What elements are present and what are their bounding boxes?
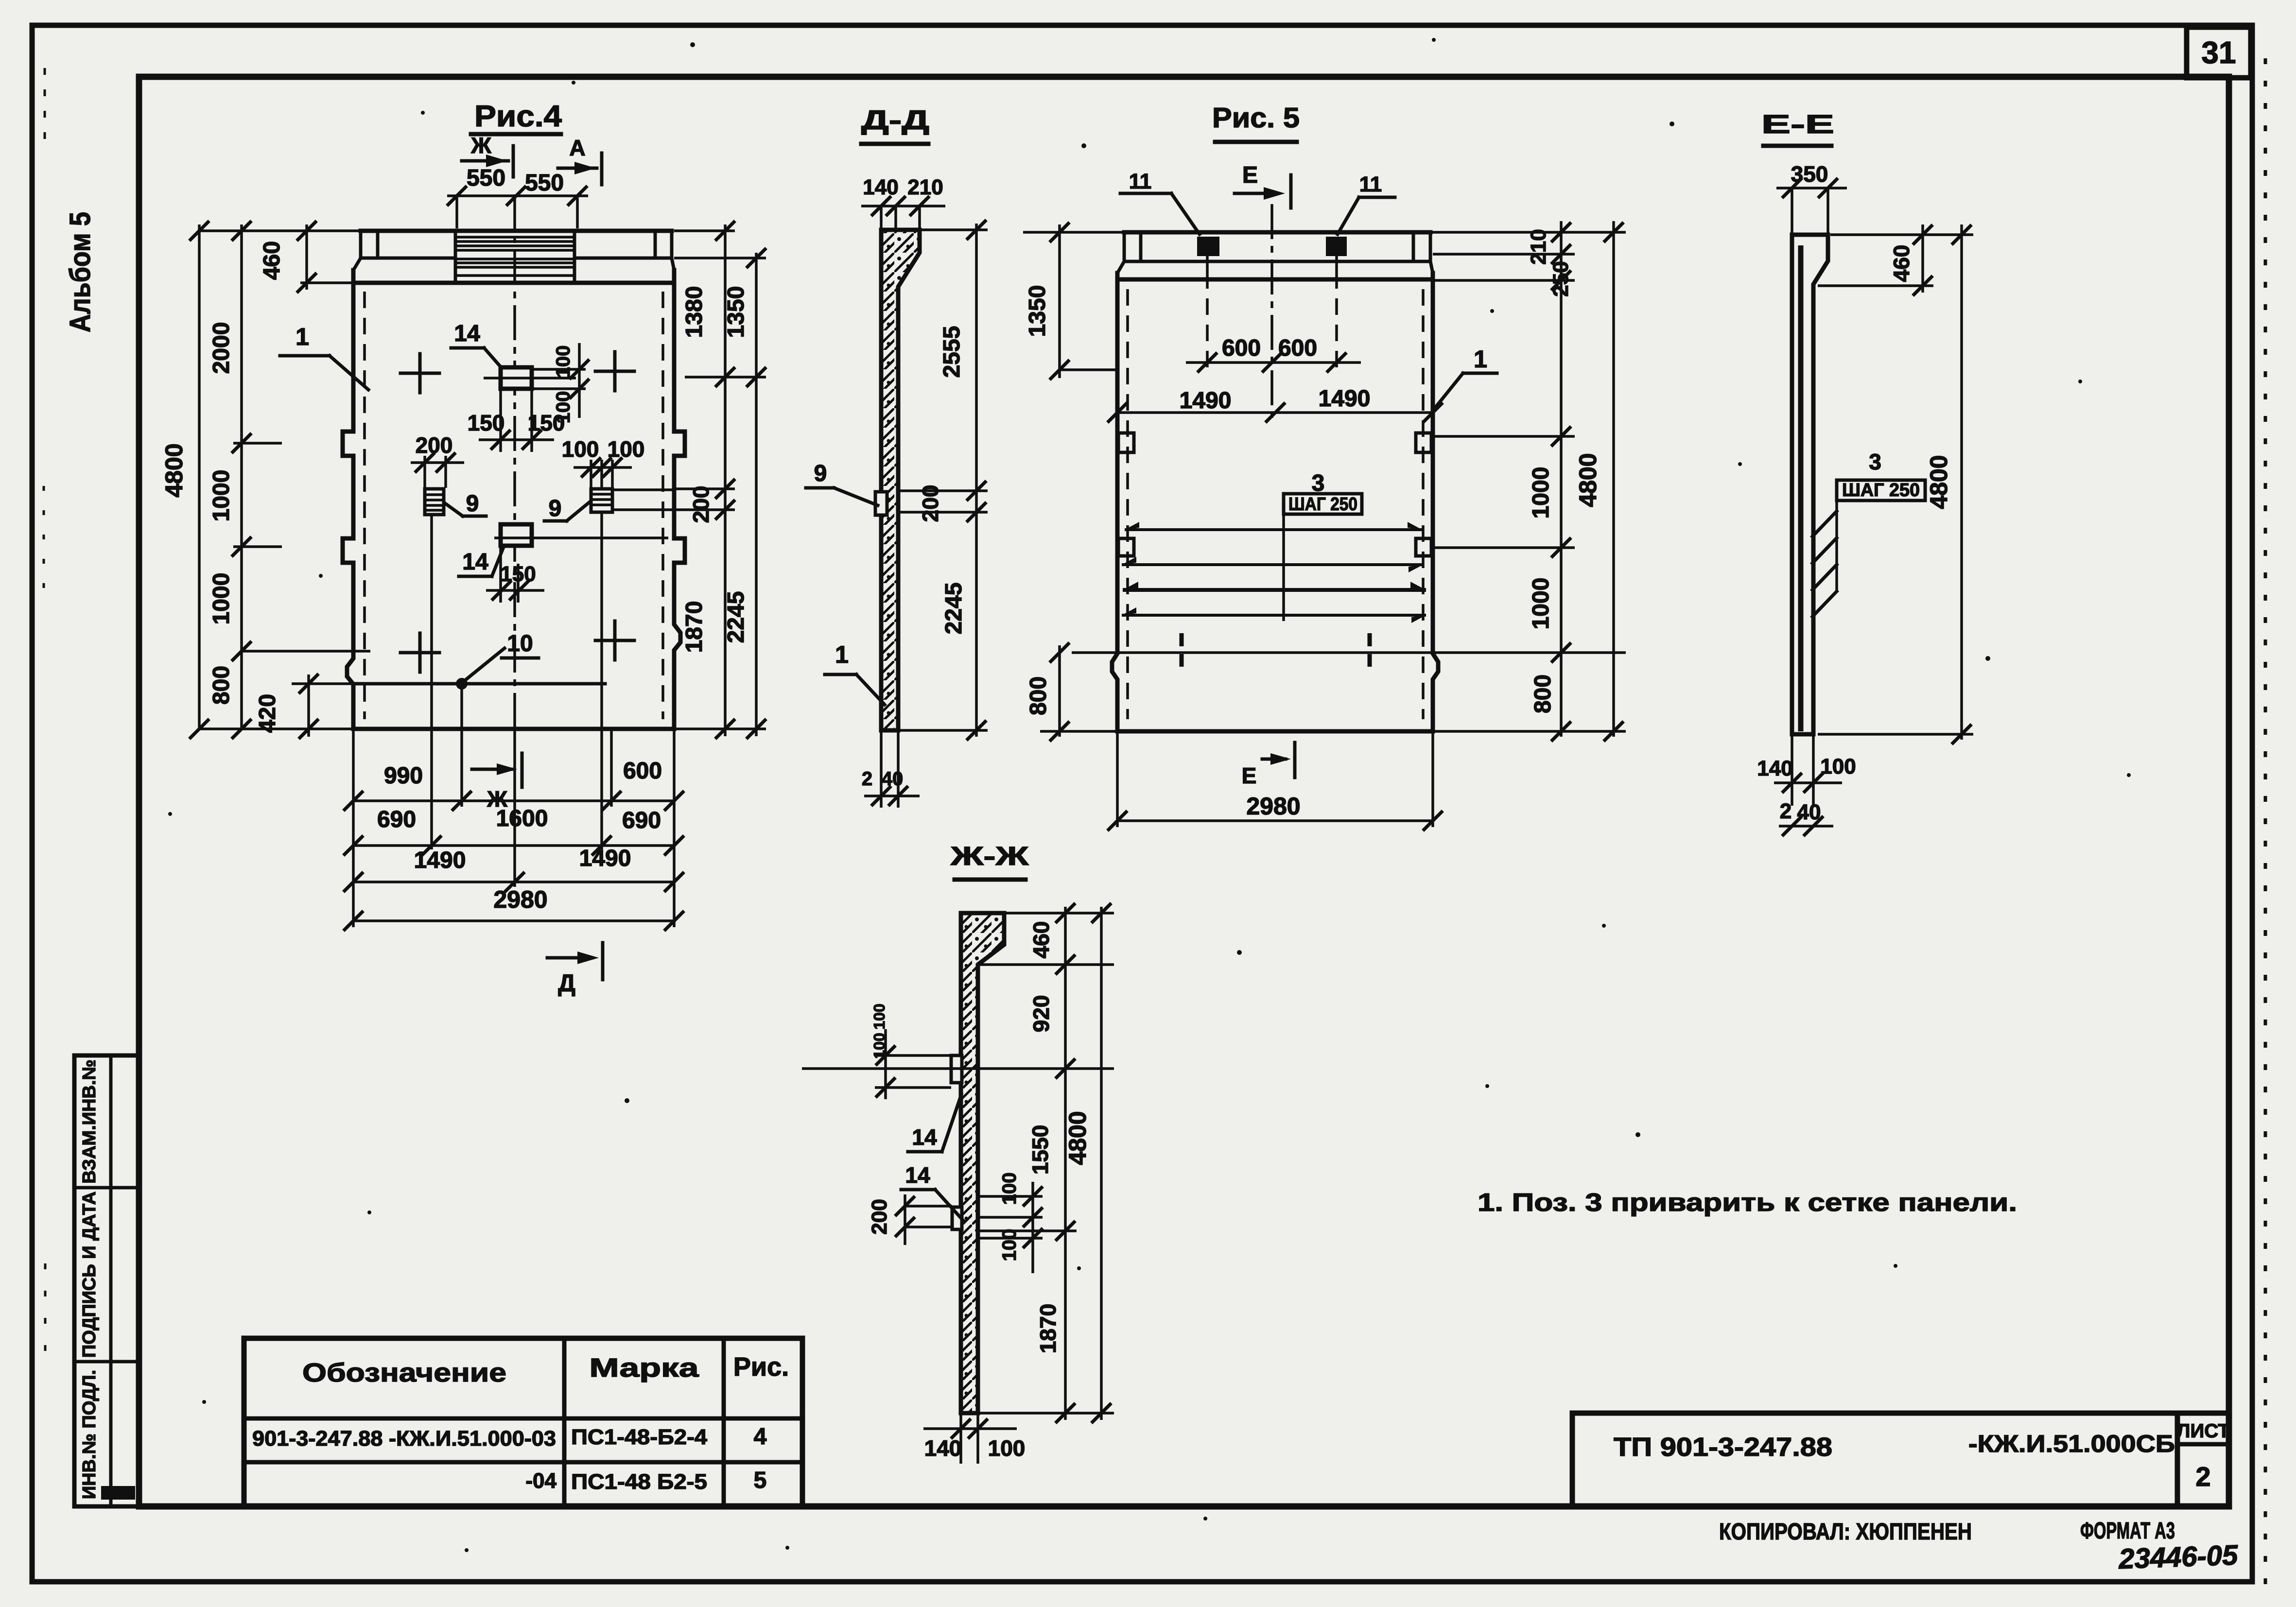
svg-text:150: 150 <box>468 410 505 435</box>
total dim 4800 left <box>198 225 201 729</box>
svg-text:1870: 1870 <box>681 601 707 653</box>
svg-text:150: 150 <box>528 410 565 435</box>
svg-text:690: 690 <box>622 808 661 833</box>
svg-text:4800: 4800 <box>160 443 188 497</box>
svg-text:ВЗАМ.ИНВ.№: ВЗАМ.ИНВ.№ <box>79 1059 100 1184</box>
right chain line B <box>755 253 758 736</box>
upper embed plate 14 <box>951 1055 962 1083</box>
svg-text:Марка: Марка <box>590 1353 699 1382</box>
svg-text:800: 800 <box>1026 676 1051 715</box>
svg-text:990: 990 <box>384 763 423 789</box>
svg-text:4: 4 <box>754 1424 767 1450</box>
svg-text:2980: 2980 <box>1246 793 1300 820</box>
svg-text:4800: 4800 <box>1574 453 1601 507</box>
total dim 4800 <box>1960 225 1963 740</box>
svg-text:Ж: Ж <box>470 133 491 158</box>
panel top band <box>1124 230 1430 235</box>
svg-text:100: 100 <box>870 1003 888 1029</box>
svg-text:1350: 1350 <box>1025 285 1050 337</box>
svg-text:Е: Е <box>1242 162 1258 188</box>
svg-text:100: 100 <box>870 1033 888 1058</box>
svg-text:100: 100 <box>999 1173 1020 1205</box>
scan shadow right edge <box>2264 58 2267 1589</box>
svg-text:1: 1 <box>1474 346 1487 373</box>
center axis <box>513 194 516 729</box>
label underline <box>471 132 561 137</box>
table column divider 1 <box>562 1338 567 1506</box>
svg-text:Д: Д <box>558 969 575 997</box>
svg-text:-КЖ.И.51.000СБ: -КЖ.И.51.000СБ <box>1968 1430 2175 1457</box>
panel bottom edge <box>1117 729 1433 734</box>
level line 800 <box>1072 651 1626 654</box>
ink blob bottom of strip <box>101 1486 135 1500</box>
svg-text:9: 9 <box>814 461 827 486</box>
dims 100 100 right of embed 14 <box>533 368 586 371</box>
label underline <box>1763 144 1831 148</box>
svg-text:100: 100 <box>553 346 574 378</box>
svg-text:460: 460 <box>1028 921 1054 959</box>
svg-text:200: 200 <box>918 485 943 522</box>
svg-text:2980: 2980 <box>493 886 547 913</box>
svg-text:Альбом 5: Альбом 5 <box>64 212 96 332</box>
leader 10 <box>466 648 504 680</box>
svg-text:2555: 2555 <box>939 326 965 378</box>
svg-text:100: 100 <box>1820 755 1856 778</box>
label underline <box>861 142 928 146</box>
svg-text:600: 600 <box>1278 335 1317 361</box>
svg-text:Рис. 5: Рис. 5 <box>1212 102 1300 134</box>
bottom dim extensions <box>352 729 355 927</box>
mesh bar 1 <box>1125 528 1422 531</box>
svg-text:31: 31 <box>2201 35 2236 70</box>
svg-text:40: 40 <box>1797 800 1821 824</box>
svg-text:901-3-247.88 -КЖ.И.51.000-03: 901-3-247.88 -КЖ.И.51.000-03 <box>252 1427 556 1451</box>
table column divider 2 <box>722 1338 726 1506</box>
svg-text:2: 2 <box>862 768 872 790</box>
svg-text:ПОДПИСЬ И ДАТА: ПОДПИСЬ И ДАТА <box>79 1192 100 1358</box>
svg-text:10: 10 <box>507 631 533 657</box>
svg-text:210: 210 <box>1527 229 1550 264</box>
svg-text:100: 100 <box>608 436 645 462</box>
panel right edge with notches <box>674 270 685 729</box>
bottom ext line <box>199 727 353 730</box>
svg-text:ШАГ 250: ШАГ 250 <box>1288 494 1357 515</box>
svg-text:Обозначение: Обозначение <box>302 1358 506 1387</box>
svg-text:140: 140 <box>1757 757 1792 780</box>
svg-text:420: 420 <box>255 694 280 733</box>
label underline <box>955 878 1026 882</box>
svg-text:1000: 1000 <box>209 573 234 625</box>
svg-text:1. Поз. 3 приварить к сетке: 1. Поз. 3 приварить к сетке панели. <box>1478 1189 2017 1217</box>
bottom dims 2 40 <box>880 730 883 808</box>
svg-text:140: 140 <box>863 175 898 199</box>
svg-text:2245: 2245 <box>723 591 749 643</box>
svg-text:Рис.4: Рис.4 <box>474 100 562 133</box>
dashed inner contour right <box>661 292 664 719</box>
wall section D-D <box>881 230 920 730</box>
list box <box>2175 1413 2180 1506</box>
svg-text:14: 14 <box>905 1162 930 1188</box>
svg-text:1: 1 <box>835 641 849 668</box>
table row line <box>244 1460 802 1465</box>
svg-text:200: 200 <box>688 486 713 523</box>
embed 11 right <box>1326 237 1347 256</box>
svg-text:800: 800 <box>209 666 234 705</box>
svg-text:1870: 1870 <box>1035 1304 1061 1353</box>
embed 9 left <box>425 489 444 515</box>
embed 11 left <box>1197 237 1219 256</box>
svg-text:3: 3 <box>1869 449 1881 474</box>
wall section Zh-Zh <box>961 913 1004 1413</box>
svg-text:ФОРМАТ А3: ФОРМАТ А3 <box>2080 1518 2175 1544</box>
svg-text:1380: 1380 <box>681 286 707 338</box>
svg-text:4800: 4800 <box>1064 1111 1091 1165</box>
section marker Zh bottom <box>472 768 511 771</box>
scan marks left edge <box>44 68 46 146</box>
svg-text:600: 600 <box>1222 335 1261 361</box>
svg-text:550: 550 <box>525 170 564 196</box>
svg-text:ИНВ.№ ПОДЛ.: ИНВ.№ ПОДЛ. <box>79 1370 100 1499</box>
dashed inner contour left <box>363 292 366 719</box>
node 10 line <box>353 682 605 686</box>
panel left edge <box>1112 273 1117 731</box>
right chain of D-D <box>975 224 978 737</box>
svg-text:250: 250 <box>1549 261 1573 296</box>
total dim 4800 <box>1100 907 1103 1420</box>
svg-text:9: 9 <box>549 496 562 521</box>
stamp strip <box>74 1055 139 1506</box>
mesh diagonal strokes <box>1812 511 1837 536</box>
cross mark top-left <box>400 372 439 375</box>
panel body top edge <box>353 281 674 285</box>
svg-text:14: 14 <box>912 1124 937 1150</box>
svg-text:100: 100 <box>988 1435 1026 1461</box>
axis dash marks lower <box>1180 633 1184 646</box>
svg-text:1490: 1490 <box>579 846 631 871</box>
svg-text:Рис.: Рис. <box>733 1352 789 1382</box>
svg-text:А: А <box>569 135 585 160</box>
edge notch tabs <box>1118 433 1134 452</box>
svg-text:200: 200 <box>868 1199 891 1234</box>
stamp strip divider 2 <box>74 1360 139 1364</box>
svg-text:920: 920 <box>1028 995 1054 1033</box>
svg-text:40: 40 <box>882 768 904 790</box>
svg-text:Е-Е: Е-Е <box>1761 110 1834 139</box>
center axis <box>1270 204 1273 418</box>
svg-text:1000: 1000 <box>1528 578 1554 630</box>
svg-text:100: 100 <box>999 1229 1020 1261</box>
panel top band <box>361 229 672 233</box>
title block outline <box>1570 1413 1575 1506</box>
svg-text:1000: 1000 <box>209 470 234 522</box>
upper embed dims 100 100 <box>875 1054 951 1057</box>
svg-text:9: 9 <box>466 491 479 517</box>
mesh bar 4 <box>1122 614 1426 617</box>
svg-text:4800: 4800 <box>1925 455 1952 509</box>
right chain line A <box>724 225 727 736</box>
svg-text:2000: 2000 <box>209 322 234 374</box>
svg-text:1550: 1550 <box>1027 1125 1053 1175</box>
right chain ext lines <box>674 229 735 232</box>
svg-text:100: 100 <box>562 436 599 462</box>
svg-text:ПС1-48 Б2-5: ПС1-48 Б2-5 <box>571 1470 707 1494</box>
embed plate 14 bottom <box>501 524 532 546</box>
svg-text:2: 2 <box>2195 1461 2210 1492</box>
panel left edge with notches <box>343 270 353 729</box>
stamp strip inner vertical <box>109 1055 113 1506</box>
bottom dims 2 40 <box>1779 825 1833 828</box>
svg-text:11: 11 <box>1129 170 1152 193</box>
svg-text:ШАГ 250: ШАГ 250 <box>1842 480 1920 501</box>
section marker D bottom <box>547 956 592 960</box>
chain ext lines <box>1430 231 1626 234</box>
chain ext ticks <box>233 442 282 445</box>
svg-text:1600: 1600 <box>496 806 548 831</box>
svg-text:1: 1 <box>296 323 309 350</box>
svg-text:2245: 2245 <box>941 583 967 635</box>
scan specks <box>690 42 695 47</box>
svg-text:210: 210 <box>907 175 943 199</box>
table header line <box>244 1417 802 1421</box>
svg-text:5: 5 <box>754 1468 767 1493</box>
panel right edge <box>1433 273 1438 731</box>
label underline <box>1215 140 1297 144</box>
svg-text:ЛИСТ: ЛИСТ <box>2176 1420 2229 1442</box>
left chain dim line <box>240 225 243 729</box>
dashed inner contour <box>1126 289 1129 719</box>
svg-text:2: 2 <box>1780 799 1792 823</box>
svg-text:11: 11 <box>1359 173 1382 196</box>
svg-text:КОПИРОВАЛ: ХЮППЕНЕН: КОПИРОВАЛ: ХЮППЕНЕН <box>1719 1519 1972 1545</box>
svg-text:14: 14 <box>454 321 480 346</box>
svg-text:1350: 1350 <box>723 286 749 338</box>
embed 9 right <box>591 489 612 512</box>
svg-text:23446-05: 23446-05 <box>2118 1539 2239 1575</box>
mesh bar 2 <box>1122 563 1423 566</box>
svg-text:460: 460 <box>1889 245 1914 282</box>
svg-text:Ж-Ж: Ж-Ж <box>950 842 1029 871</box>
svg-text:800: 800 <box>1530 674 1556 713</box>
panel bottom edge <box>353 727 674 731</box>
bottom dims 140 100 <box>1791 734 1793 806</box>
embed plate 14 top <box>501 367 532 389</box>
svg-text:550: 550 <box>467 165 505 191</box>
panel body top edge <box>1117 277 1433 282</box>
total dim 4800 right <box>1612 221 1615 737</box>
svg-text:Д-Д: Д-Д <box>861 104 929 135</box>
svg-text:1000: 1000 <box>1528 467 1554 519</box>
cross mark bottom-left <box>400 651 439 655</box>
hatched anchor strip <box>455 231 574 283</box>
cross mark top-right <box>595 370 634 373</box>
node 10 point <box>456 678 468 690</box>
svg-text:ТП 901-3-247.88: ТП 901-3-247.88 <box>1614 1433 1832 1462</box>
svg-text:690: 690 <box>377 807 416 832</box>
svg-text:1490: 1490 <box>1319 386 1371 412</box>
svg-text:14: 14 <box>462 549 488 575</box>
bottom dims 140 100 <box>959 1413 962 1464</box>
svg-text:1490: 1490 <box>1180 388 1232 414</box>
cross mark bottom-right <box>595 639 634 642</box>
right chain of Zh-Zh <box>1064 907 1067 1420</box>
svg-text:ПС1-48-Б2-4: ПС1-48-Б2-4 <box>571 1425 708 1449</box>
stamp strip divider 1 <box>74 1186 139 1190</box>
svg-text:600: 600 <box>623 758 662 784</box>
lower embed plate 14 <box>952 1207 962 1229</box>
heavy core line <box>1798 245 1804 731</box>
svg-text:460: 460 <box>259 241 285 280</box>
svg-text:-04: -04 <box>525 1469 557 1493</box>
embed plate on wall <box>875 492 887 515</box>
svg-text:140: 140 <box>924 1435 962 1461</box>
right chain of Ris5 <box>1560 221 1563 737</box>
mesh bar 3 <box>1123 588 1426 592</box>
sheet number box 31 <box>2187 27 2251 78</box>
table outline <box>244 1338 802 1506</box>
svg-text:Е: Е <box>1242 763 1257 788</box>
wall section E-E <box>1792 235 1828 734</box>
svg-text:1490: 1490 <box>414 847 466 873</box>
